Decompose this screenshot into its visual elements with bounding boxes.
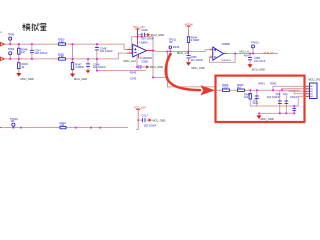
junction (141.5,36.7) [141,36,143,38]
svg-text:TL082IDR: TL082IDR [140,56,152,60]
junction (9.4,58.1) [9,58,11,60]
pin numbers U080A [129,48,150,54]
svg-text:0R: 0R [11,119,14,123]
svg-text:2.49kR: 2.49kR [191,38,200,42]
junction (96.1,43.3) [96,43,98,45]
capacitor C051 output RC [248,53,252,64]
junction (9.4,43.3) [9,43,11,45]
ground MCU_GND left branch [16,73,33,81]
port arrow row2 [0,57,4,60]
svg-text:104 100nF: 104 100nF [93,65,106,69]
svg-text:C046: C046 [141,28,148,32]
junction (99.4,126.8) [99,127,101,129]
resistor R049 to ground [18,59,20,73]
junction (18,43.3) [18,43,20,45]
svg-text:MCU_GND: MCU_GND [252,68,265,72]
junction (285.5,112.5) [286,113,288,115]
resistor R044 on VCOM [187,37,189,43]
in-rect resistor R030 [237,89,244,91]
svg-text:104 100nF: 104 100nF [190,58,203,62]
power VCC_+5V top [133,25,145,40]
svg-text:VCC_+5V: VCC_+5V [134,105,146,109]
ground stage2 [186,62,205,70]
svg-text:R041: R041 [259,81,266,85]
testpoint TP12 [251,45,254,48]
title 模拟量 (drawn as strokes for font-safety) [22,23,46,31]
svg-text:104: 104 [283,92,288,96]
junction (152.2,76.6) [152,77,154,79]
in-rect vertical branch 2 [256,90,258,106]
wire row1 [3,37,279,128]
svg-text:TP08: TP08 [8,32,15,36]
svg-text:C045: C045 [130,77,137,81]
svg-text:MCU_GND: MCU_GND [150,65,163,69]
capacitor C047 between rails [31,44,33,50]
in-rect rail 3 [259,112,294,114]
red annotation arrow [166,54,200,90]
svg-text:271R: 271R [222,86,228,90]
resistor R047 to ground [72,44,74,73]
svg-text:C017: C017 [141,113,148,117]
svg-text:2.4k: 2.4k [59,55,65,59]
bottom hook [136,128,138,130]
junction (293.4,112.5) [293,113,295,115]
red detail rectangle [216,76,305,122]
power VCOM [185,22,193,51]
junction (136.7,33.9) [137,36,139,38]
testpoint TP010 [12,123,15,126]
svg-text:0R: 0R [61,123,64,127]
junction (152.2,49.8) [152,50,154,52]
svg-text:R042: R042 [270,81,277,85]
svg-text:C098: C098 [141,60,148,64]
wire vref rail [97,71,169,78]
connector J1 [306,78,320,99]
junction (96.1,58.1) [96,58,98,60]
ground bottom cluster [149,118,166,122]
power VCC_+5V bottom [134,105,146,129]
junction (252.2,52.6) [252,53,254,55]
in-rect resistor R026 [223,89,297,111]
svg-text:MCU_A: MCU_A [240,49,250,53]
junction (186.9,51.7) [188,51,190,53]
in-rect cap verticals [280,90,294,113]
op-amp U080B [213,47,224,60]
ground MCU_GND mid branch [70,74,87,82]
resistor R050 inline row1 [59,43,66,45]
junction (136.2,66.1) [136,66,138,68]
svg-text:100nF: 100nF [290,95,298,99]
svg-text:10nF: 10nF [252,101,258,105]
resistor R051 inline row2 [59,58,66,60]
svg-text:104 100nF: 104 100nF [100,49,113,53]
wire op2 output [227,52,278,54]
svg-text:104 100nF: 104 100nF [35,51,48,55]
junction (74.9,126.8) [75,127,77,129]
small blue labels left section [8,28,266,80]
tiny black net labels [124,49,250,63]
junction (71.7,58.1) [72,58,74,60]
junction (279,112.5) [279,113,281,115]
testpoint TP09 [9,52,12,55]
junction (249.4,89.4) [249,89,251,91]
capacitor C048 below row1 [96,44,98,47]
wire bottom row [3,127,129,129]
junction (272.2,89.4) [272,89,274,91]
junction (87.2,58.1) [87,58,89,60]
in-rect labels [222,81,298,105]
svg-text:MCU_GND: MCU_GND [192,66,205,70]
junction (249.2,52.6) [249,53,251,55]
char 模 [22,23,25,31]
svg-text:MCU_GND: MCU_GND [74,77,87,81]
junction (20,126.8) [20,127,22,129]
op-amp U080B pins [210,50,228,57]
ground C049 [86,70,90,73]
ground right MCU_GND (U080A V+) [147,33,164,37]
pin numbers U080B [210,48,226,57]
junction (293.4,105.2) [293,105,295,107]
resistor R048 vertical between rails [18,43,99,74]
op-amp U080A [133,44,147,57]
char 拟 [31,23,34,30]
wire row2 [3,53,128,59]
junction (234.3,52.6) [234,53,236,55]
svg-text:104 100nF: 104 100nF [141,36,154,40]
svg-text:0R: 0R [169,40,172,44]
wire down to rect [167,51,215,87]
junction (166.9,51.7) [167,51,169,53]
svg-text:2k4: 2k4 [244,95,249,99]
junction (31.1,43.3) [31,43,33,45]
char 量 [40,23,47,30]
svg-text:104 10nF: 104 10nF [254,59,266,63]
junction (31.1,58.1) [31,58,33,60]
ground output RC [248,64,266,71]
svg-text:A04: A04 [244,53,249,57]
op-amp U080A pins [127,40,153,59]
svg-text:2.4k: 2.4k [59,40,65,44]
wire stage2 main [153,50,210,52]
svg-text:U080B: U080B [222,42,230,46]
wire op2 feedback loop [210,53,236,62]
svg-text:TP09: TP09 [8,47,15,51]
capacitor bypass U080A [138,33,148,37]
junction (131,52.3) [131,52,133,54]
svg-text:MCU_GND: MCU_GND [21,77,34,81]
svg-text:MCU_JP1: MCU_JP1 [309,78,320,82]
svg-text:MCU_vref: MCU_vref [124,59,136,63]
capacitor C049 below row2 [87,59,89,64]
ground right MCU_GND (U080A V-) [137,56,163,69]
svg-text:MCU_GND: MCU_GND [261,117,274,121]
junction (71.7,43.3) [72,43,74,45]
svg-text:105 100nF: 105 100nF [144,124,157,128]
junction (170.3,51.4) [170,51,172,53]
bottom row resistor R043 [60,126,66,128]
port arrow row1 [0,42,4,127]
capacitor C050 stage2 [187,51,191,62]
svg-text:R045: R045 [173,45,180,49]
svg-text:MCU_GND: MCU_GND [151,33,164,37]
junction (96.1,69.8) [96,70,98,72]
svg-text:MCU_GND: MCU_GND [152,118,165,122]
junction (256,89.4) [256,89,258,91]
svg-text:TL082IDR: TL082IDR [221,60,231,62]
in-rect cap C052 [255,96,296,111]
junction (90.1,126.8) [90,127,92,129]
in-rect wires to connector [273,86,310,106]
svg-text:104: 104 [275,92,280,96]
svg-text:MCU_vref: MCU_vref [177,51,189,55]
junction (281.1,89.4) [281,89,283,91]
testpoint TP08 [9,37,255,128]
capacitor C017 bottom [138,118,148,122]
svg-text:U080A: U080A [140,41,148,45]
junction (137.4,119.3) [137,119,139,121]
in-rect resistor vertical [249,94,251,100]
svg-text:4k7: 4k7 [237,86,242,90]
in-rect junction dots [249,89,295,114]
in-rect rail 2 [250,105,294,107]
junction (258.2,112.5) [258,113,260,115]
svg-text:TP012: TP012 [251,40,259,44]
testpoint TP11 [169,46,172,49]
port tick bottom [0,127,2,129]
junction (12.5,126.8) [13,127,15,129]
junction (18,58.1) [18,58,20,60]
svg-text:R045: R045 [130,71,137,75]
in-rect vertical branch 1 [249,90,251,106]
in-rect main wire [217,86,310,113]
in-rect ground [257,113,274,121]
svg-text:CH0_IA: CH0_IA [264,51,274,55]
svg-text:2.49kR: 2.49kR [75,65,84,69]
wire op1 feedback loop [132,37,153,78]
